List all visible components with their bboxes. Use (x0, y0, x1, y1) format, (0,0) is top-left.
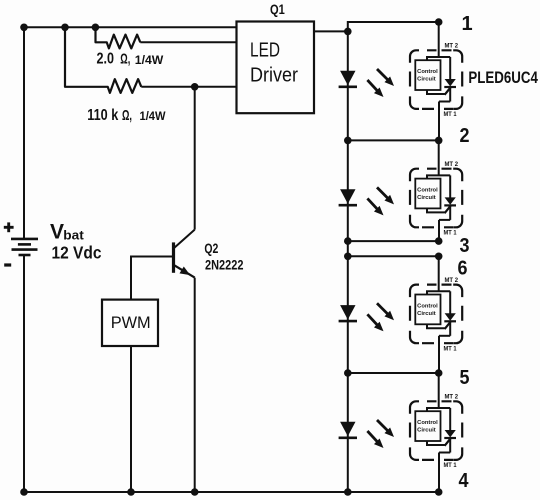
wire rail node 3 (348, 240, 439, 242)
wire LED string column (347, 31, 349, 492)
wire R2 to driver (141, 86, 236, 88)
svg-text:1/4W: 1/4W (140, 109, 167, 123)
battery minus label (4, 263, 11, 266)
resistor R1 2.0 ohm (96, 27, 141, 48)
PLED protector U2 (PLED6UC4) (410, 140, 462, 241)
node junction R2 tap (61, 24, 69, 32)
svg-text:110 k: 110 k (87, 107, 118, 124)
svg-text:MT 2: MT 2 (445, 43, 459, 50)
junction rail3 left (344, 237, 352, 245)
junction rail6 left (344, 252, 352, 260)
junction ground LED column (344, 488, 352, 496)
svg-text:Control: Control (417, 187, 438, 193)
left rail wire (battery top) (23, 27, 25, 239)
node junction R1 tap (92, 24, 100, 32)
junction ground PLED column (435, 488, 443, 496)
wire driver output (314, 30, 348, 32)
svg-text:PWM: PWM (111, 313, 151, 332)
wire rail node 6 (348, 255, 439, 257)
battery plus label (4, 222, 14, 232)
battery V_bat (11, 239, 38, 255)
LED D3 (339, 303, 394, 331)
wire column jog to rail 1 (348, 22, 439, 31)
svg-text:MT 1: MT 1 (444, 345, 458, 352)
svg-text:Q2: Q2 (204, 241, 218, 256)
svg-text:Driver: Driver (250, 63, 298, 86)
svg-text:MT 1: MT 1 (444, 462, 458, 469)
junction ground PWM (127, 488, 135, 496)
svg-text:PLED6UC4: PLED6UC4 (468, 68, 538, 87)
wire collector Q2 (194, 87, 196, 230)
svg-text:Control: Control (417, 420, 438, 426)
junction ground emitter (191, 488, 199, 496)
junction rail5 left (344, 369, 352, 377)
svg-text:Control: Control (417, 303, 438, 309)
label R1 value (97, 51, 164, 68)
junction rail2 right (435, 137, 443, 145)
PLED protector U1 (PLED6UC4) (410, 22, 462, 140)
svg-text:1/4W: 1/4W (135, 53, 164, 67)
label V_bat value (50, 221, 102, 263)
svg-text:1: 1 (462, 13, 473, 35)
node junction collector/R2 (191, 83, 199, 91)
svg-text:2.0: 2.0 (97, 51, 115, 68)
svg-text:MT 2: MT 2 (445, 277, 459, 284)
wire rail node 5 (348, 372, 439, 374)
svg-text:Circuit: Circuit (417, 311, 436, 317)
bottom ground rail wire (23, 491, 439, 493)
junction rail2 left (344, 137, 352, 145)
svg-text:bat: bat (63, 228, 84, 243)
junction rail5 right (435, 369, 443, 377)
transistor Q2 (174, 230, 195, 278)
PLED protector U4 (PLED6UC4) (410, 373, 462, 492)
wire rail node 2 (348, 139, 439, 141)
junction rail6 right (435, 252, 443, 260)
label LED Driver (250, 38, 298, 86)
wire PWM to ground (130, 346, 132, 492)
svg-text:6: 6 (458, 257, 468, 279)
top rail wire (24, 26, 237, 28)
svg-text:Circuit: Circuit (417, 428, 436, 434)
svg-text:5: 5 (460, 367, 470, 389)
left rail wire (battery bottom) (23, 256, 25, 492)
svg-text:2N2222: 2N2222 (205, 258, 244, 273)
PLED protector U3 (PLED6UC4) (410, 256, 462, 373)
svg-text:Ω,: Ω, (120, 52, 130, 68)
svg-text:MT 1: MT 1 (444, 229, 458, 236)
label R2 value (87, 107, 166, 124)
svg-text:Q1: Q1 (270, 2, 285, 17)
svg-text:Ω,: Ω, (122, 108, 132, 124)
junction rail3 right (435, 237, 443, 245)
svg-text:Circuit: Circuit (417, 77, 436, 83)
svg-text:12 Vdc: 12 Vdc (52, 243, 102, 263)
svg-text:Control: Control (417, 69, 438, 75)
wire emitter down (194, 278, 196, 492)
svg-text:V: V (50, 221, 64, 244)
junction ground left (20, 488, 28, 496)
svg-text:LED: LED (250, 38, 280, 61)
LED D4 (339, 420, 394, 448)
svg-text:4: 4 (459, 470, 470, 492)
svg-text:2: 2 (460, 125, 470, 147)
svg-text:MT 2: MT 2 (445, 394, 459, 401)
resistor R2 110k (65, 27, 141, 93)
LED D2 (339, 187, 394, 215)
wire base to PWM column (131, 257, 174, 300)
junction rail1 right (435, 18, 443, 26)
svg-text:MT 1: MT 1 (444, 111, 458, 118)
PWM box U3 (102, 300, 158, 346)
wire R1 to driver (140, 41, 236, 43)
LED D1 (339, 69, 394, 97)
node junction top-left (20, 24, 28, 32)
svg-text:3: 3 (460, 235, 470, 257)
svg-text:MT 2: MT 2 (445, 161, 459, 168)
junction driver output node (344, 28, 352, 36)
svg-text:Circuit: Circuit (417, 195, 436, 201)
LED Driver box U2 (237, 22, 315, 114)
